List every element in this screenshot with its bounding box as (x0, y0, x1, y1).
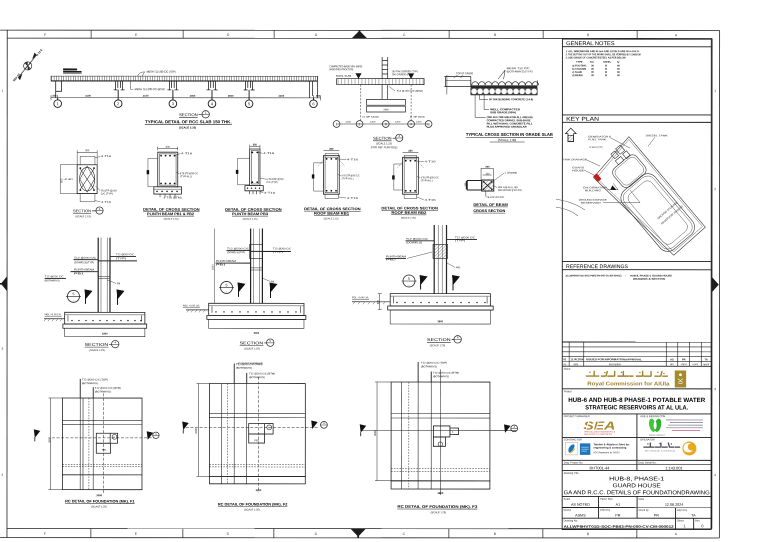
right edge row labels (714, 89, 716, 477)
svg-text:engineering & contracting: engineering & contracting (593, 447, 626, 450)
svg-text:(TYP-ALL): (TYP-ALL) (180, 175, 192, 178)
svg-text:RESERVOIR: RESERVOIR (581, 202, 601, 205)
svg-text:(SCALE 1:25): (SCALE 1:25) (376, 141, 392, 145)
S5 ground line left (186, 309, 209, 311)
svg-text:no.: no. (563, 363, 567, 366)
svg-text:ROOF BEAM RB1: ROOF BEAM RB1 (314, 212, 349, 216)
RCU arabic wordmark (squiggle approximation) (586, 371, 667, 376)
key plan site boundary (594, 137, 706, 256)
RCU gold emblem (675, 370, 686, 387)
RB2 rebar dots (405, 160, 416, 192)
svg-text:PB2: PB2 (386, 258, 397, 261)
contractor row bottom (562, 459, 711, 461)
svg-text:C/C (TYP): C/C (TYP) (101, 192, 113, 195)
svg-text:(MODIFIED PROCTOR): (MODIFIED PROCTOR) (329, 68, 353, 71)
drawn row (675, 508, 677, 530)
svg-text:T12 @200 C/C (BTM): T12 @200 C/C (BTM) (249, 373, 275, 376)
svg-text:SECTION: SECTION (73, 209, 91, 213)
svg-text:4-T16: 4-T16 (263, 152, 275, 155)
slab band bottom thick edge (51, 80, 317, 82)
svg-text:4-T16: 4-T16 (347, 197, 359, 200)
right centering mark triangle (712, 277, 719, 292)
svg-text:3: 3 (172, 101, 175, 106)
svg-text:SAUDI CONSULT: SAUDI CONSULT (649, 434, 666, 437)
svg-text:T8-STP 200 C/C: T8-STP 200 C/C (486, 196, 504, 199)
PB3 base strip (245, 186, 263, 191)
SC green logo (648, 418, 663, 432)
svg-text:(SCALE 1:25): (SCALE 1:25) (244, 509, 260, 512)
grade slab mesh dark strip (471, 86, 538, 88)
RB2 top dim (403, 151, 419, 153)
svg-text:TYPICAL DETAIL OF RCC SLAB 150: TYPICAL DETAIL OF RCC SLAB 150 THK. (145, 119, 232, 124)
svg-text:SUB GRADE (95%): SUB GRADE (95%) (490, 110, 516, 114)
RB1 top bracket (325, 153, 339, 157)
svg-text:150: 150 (485, 172, 490, 175)
svg-text:250: 250 (253, 144, 258, 147)
svg-text:4-T16: 4-T16 (347, 158, 359, 161)
svg-text:d) BEAM: d) BEAM (572, 74, 582, 77)
svg-text:1t. OF 16mm: 1t. OF 16mm (410, 116, 425, 119)
svg-text:PR: PR (682, 357, 686, 361)
svg-text:(SCALE 1:15): (SCALE 1:15) (324, 217, 339, 220)
left edge dim ticks (446, 75, 448, 95)
svg-text:2600: 2600 (383, 109, 389, 111)
S6 plinth beam block on column (433, 244, 448, 258)
svg-text:B: B (494, 33, 497, 37)
svg-text:3: 3 (1, 347, 3, 351)
svg-text:5: 5 (408, 277, 410, 281)
frame left border (6, 30, 8, 537)
key plan leader lines (584, 137, 655, 203)
svg-text:D: D (227, 532, 230, 536)
svg-text:1: 1 (57, 101, 60, 106)
reference drawings bar (562, 260, 711, 262)
svg-text:1800: 1800 (102, 332, 108, 335)
svg-text:(SCALE 1:15): (SCALE 1:15) (243, 218, 258, 221)
svg-text:R62: R62 (456, 266, 461, 269)
S4 blinding layer (63, 324, 147, 328)
svg-text:250: 250 (329, 148, 334, 151)
grade slab aggregate row (471, 88, 538, 95)
F1 centerlines (102, 393, 104, 493)
svg-text:200: 200 (485, 166, 490, 169)
svg-text:(BOTHWAYS): (BOTHWAYS) (236, 367, 252, 370)
S4 footing (65, 312, 145, 324)
grade slab scallop row (471, 80, 538, 85)
SC text lines (666, 420, 703, 428)
svg-text:ALLWP8HVT01D-SOC-PB03-PN-000-C: ALLWP8HVT01D-SOC-PB03-PN-000-CV-CM-00001… (564, 525, 674, 529)
S6 column shaft (434, 225, 446, 294)
svg-text:(TYP): (TYP) (455, 239, 465, 242)
slab band with hatch (51, 76, 317, 81)
bottom ruler letters (44, 532, 678, 536)
svg-text:Date: Date (639, 497, 645, 501)
cut arrows on beam (355, 73, 361, 79)
north arrow head NE (33, 53, 36, 58)
contractor logo B (blue square) (580, 443, 590, 455)
revision table (562, 342, 711, 366)
svg-text:AS NOTED: AS NOTED (571, 503, 590, 507)
S6 excavation outline (390, 310, 490, 324)
lintel left end tick (465, 181, 467, 189)
svg-text:TOP OF GRADE: TOP OF GRADE (456, 72, 473, 75)
red guard house marker (593, 173, 601, 182)
svg-text:SECTION: SECTION (427, 337, 451, 342)
svg-text:DETAIL OF CROSS SECTION: DETAIL OF CROSS SECTION (381, 206, 438, 210)
svg-text:5: 5 (226, 283, 228, 287)
PB1 left dim box (148, 158, 158, 186)
svg-text:A1: A1 (616, 503, 621, 507)
svg-text:4-T16: 4-T16 (425, 199, 437, 202)
general notes bottom (562, 114, 711, 116)
svg-text:3200: 3200 (256, 488, 262, 492)
S5 cut flag right (269, 282, 277, 292)
footing lower pad rect (367, 106, 406, 112)
F3 vertical bar lines (400, 382, 402, 489)
svg-text:(SCALE 1:25): (SCALE 1:25) (430, 344, 446, 347)
lintel top bracket (481, 168, 493, 180)
S6 footing (390, 294, 490, 306)
svg-text:B. WALL (TYP): B. WALL (TYP) (589, 146, 602, 149)
section 2 dim line with bubbles (337, 123, 428, 125)
frame right inner border (711, 38, 713, 528)
svg-text:PLUS APPROVED GRANULAR: PLUS APPROVED GRANULAR (487, 125, 527, 129)
svg-text:DETAIL OF BEAM: DETAIL OF BEAM (473, 203, 508, 207)
top ruler division ticks (91, 30, 637, 38)
svg-text:Dwg. Serial No.: Dwg. Serial No. (638, 461, 656, 465)
svg-text:(SCALE 1:25): (SCALE 1:25) (89, 349, 105, 352)
svg-text:12.08.2024: 12.08.2024 (665, 503, 683, 507)
F1 left dim (49, 398, 51, 490)
label BLDG FFL blob top-left (63, 68, 82, 72)
svg-text:1500: 1500 (212, 264, 215, 270)
svg-text:PR: PR (654, 514, 659, 518)
dwg numbers row (636, 460, 638, 470)
svg-text:4-T16: 4-T16 (101, 155, 112, 158)
svg-text:3. USE GRADE OF CONCRETE/STEEL: 3. USE GRADE OF CONCRETE/STEEL AS PER BE… (566, 55, 627, 59)
dwg numbers row bottom (562, 469, 711, 471)
scale row bottom (562, 506, 711, 508)
svg-text:GENERAL NOTES: GENERAL NOTES (566, 41, 615, 47)
svg-text:4: 4 (268, 427, 270, 430)
F1 leader drop lines (79, 379, 81, 398)
F3 dashed bottom bars (391, 467, 490, 469)
S5 footing (209, 303, 304, 315)
svg-text:Drawing Title: Drawing Title (564, 471, 580, 475)
svg-text:TANK DRAINAGE: TANK DRAINAGE (563, 158, 587, 161)
small reservoir cell (610, 152, 648, 190)
svg-text:3600: 3600 (437, 491, 443, 495)
svg-text:Royal Commission for AlUla: Royal Commission for AlUla (587, 381, 670, 387)
key plan site structures (rotated) (589, 141, 699, 258)
PB3 dowels below base (250, 191, 261, 194)
svg-text:Drawing No.: Drawing No. (564, 518, 579, 522)
svg-text:4-T16 (BTM): 4-T16 (BTM) (164, 196, 182, 199)
RB1 rect (323, 155, 339, 194)
svg-text:3000: 3000 (47, 436, 51, 442)
svg-text:MESH T12-200 C/C (BTM): MESH T12-200 C/C (BTM) (135, 87, 165, 91)
svg-text:(SCALE 1:25): (SCALE 1:25) (179, 125, 196, 129)
drawing title bottom (562, 495, 711, 497)
svg-text:3000: 3000 (190, 94, 196, 98)
svg-text:TYPICAL CROSS SECTION IN GRADE: TYPICAL CROSS SECTION IN GRADE SLAB (466, 132, 553, 137)
svg-text:T12 @200 C/C (BTM): T12 @200 C/C (BTM) (95, 387, 121, 390)
project row bottom (562, 413, 711, 415)
general notes table (572, 61, 620, 77)
svg-text:F: F (44, 532, 46, 536)
svg-text:description: description (609, 363, 622, 366)
svg-text:250: 250 (408, 150, 413, 153)
svg-text:-0.30: -0.30 (64, 178, 74, 181)
S5 left dim (213, 229, 215, 304)
F3 left cut flag (360, 424, 367, 433)
revision header row (563, 363, 709, 366)
svg-text:(BOTHWAYS): (BOTHWAYS) (249, 376, 265, 379)
key plan bar bottom (562, 121, 711, 123)
svg-text:fcu: fcu (590, 61, 594, 64)
F2 column outline (249, 424, 273, 444)
svg-text:12.08.2024: 12.08.2024 (570, 357, 584, 361)
svg-text:AS: AS (670, 357, 674, 361)
svg-text:Paper Size: Paper Size (600, 497, 613, 501)
RB2 rect (403, 157, 419, 194)
revision data row (563, 357, 708, 361)
grid bubbles (54, 90, 317, 108)
svg-text:F: F (44, 33, 46, 37)
svg-text:B: B (587, 532, 590, 536)
svg-text:HSE & DESIGN CON.: HSE & DESIGN CON. (640, 414, 666, 418)
F2 outer square (209, 384, 305, 477)
svg-text:3: 3 (99, 207, 101, 211)
svg-text:MESH T12-200 C/C (TOP): MESH T12-200 C/C (TOP) (147, 70, 176, 74)
svg-text:4: 4 (1, 473, 3, 477)
svg-text:CROSS SECTION: CROSS SECTION (473, 209, 505, 213)
general notes text lines (566, 49, 641, 59)
svg-text:HUB-8, PHASE-1: HUB-8, PHASE-1 (609, 477, 664, 483)
svg-text:app'd: app'd (703, 363, 710, 366)
svg-text:(SCALE 1:25): (SCALE 1:25) (431, 511, 447, 514)
svg-text:4-T16: 4-T16 (264, 192, 276, 195)
svg-text:rev'd: rev'd (693, 363, 699, 366)
svg-text:1: 1 (714, 89, 716, 93)
svg-text:(TYP-ALL): (TYP-ALL) (342, 177, 354, 180)
F3 centerlines (439, 369, 441, 495)
svg-text:(TYP): (TYP) (116, 257, 126, 260)
svg-text:T12 @200 C/C (BTM): T12 @200 C/C (BTM) (433, 372, 459, 375)
bottom ruler division ticks (91, 528, 637, 537)
svg-text:Rev.: Rev. (695, 519, 700, 523)
right end downstand (310, 76, 318, 98)
F2 right cut flag and bubble (311, 420, 318, 429)
svg-text:(BOTHWAYS) (TYP): (BOTHWAYS) (TYP) (507, 69, 533, 73)
PB1 top dim (158, 147, 178, 149)
svg-text:PB1: PB1 (102, 449, 107, 452)
svg-text:DIESEL TANK: DIESEL TANK (646, 134, 669, 137)
svg-text:4100: 4100 (85, 94, 91, 98)
RB2 dashed hooks (397, 162, 424, 168)
north arrow head SW (18, 75, 21, 80)
svg-text:PR: PR (615, 514, 620, 518)
svg-text:chk'd: chk'd (681, 363, 687, 366)
svg-text:PLINTH BEAM PB1 & PB2: PLINTH BEAM PB1 & PB2 (147, 212, 194, 216)
svg-text:(SCALE 1:15): (SCALE 1:15) (164, 218, 179, 221)
svg-text:0: 0 (701, 523, 704, 528)
svg-text:4: 4 (452, 431, 454, 434)
title block outer box (562, 39, 711, 529)
operator arabic wordmark (644, 443, 680, 447)
svg-text:(DOWELS)(TYP): (DOWELS)(TYP) (74, 261, 94, 264)
svg-text:Rev'd by: Rev'd by (639, 508, 650, 512)
operator swirl logo (682, 441, 696, 455)
svg-text:Project: Project (564, 389, 572, 393)
svg-text:2: 2 (714, 187, 716, 191)
S4 footing rebar dots row (71, 320, 141, 321)
svg-text:Scale: Scale (564, 497, 571, 501)
svg-text:PLINTH BEAM: PLINTH BEAM (74, 268, 94, 271)
svg-text:T12 @200 C/C (TOP): T12 @200 C/C (TOP) (82, 378, 108, 381)
svg-text:(BOTHWAYS): (BOTHWAYS) (421, 365, 437, 368)
svg-text:3000: 3000 (254, 332, 260, 335)
PB3 beam rect (250, 149, 260, 186)
frame right outer border (718, 30, 720, 537)
svg-text:N 31 E: N 31 E (35, 48, 43, 57)
svg-text:3200: 3200 (194, 428, 198, 434)
S6 footing rebar dots row (396, 302, 485, 303)
svg-text:ALLWP8HVT01D-SOC-PB03-PN-000-C: ALLWP8HVT01D-SOC-PB03-PN-000-CV-AR-00001… (565, 274, 622, 277)
top ruler letters (44, 33, 678, 37)
svg-text:1200: 1200 (345, 121, 351, 124)
svg-text:(BOTHWAYS): (BOTHWAYS) (95, 390, 111, 393)
svg-text:RC DETAIL OF FOUNDATION (MK).: RC DETAIL OF FOUNDATION (MK). F1 (65, 499, 135, 503)
guard house structures (616, 145, 625, 154)
svg-text:-: - (226, 290, 227, 294)
PB1 base strip (154, 187, 182, 194)
S5 blinding layer (207, 315, 306, 319)
svg-text:C: C (403, 532, 406, 536)
svg-text:FUEL TANK: FUEL TANK (588, 138, 607, 141)
svg-text:B: B (605, 74, 607, 77)
PB1 rebar dots (156, 155, 178, 192)
RB1 left dim box (314, 163, 324, 191)
svg-text:2: 2 (359, 122, 361, 126)
left edge horizontal tick (0, 283, 7, 285)
svg-text:Chk'd by: Chk'd by (600, 508, 611, 512)
svg-text:(BOTHWAYS): (BOTHWAYS) (433, 375, 449, 378)
svg-text:4-T16: 4-T16 (425, 160, 437, 163)
svg-text:B: B (494, 532, 497, 536)
RB2 top bracket (404, 155, 417, 159)
S5 footing rebar dots row (215, 311, 296, 312)
left slab edge extension (446, 77, 471, 87)
top dim (77, 151, 97, 153)
PB3 top dim (250, 145, 260, 147)
consultants row divider (636, 414, 638, 460)
svg-text:1200: 1200 (395, 121, 401, 124)
svg-text:(DOWELS)(TYP): (DOWELS)(TYP) (227, 251, 245, 254)
access road curves (556, 199, 585, 216)
svg-text:C: C (403, 33, 406, 37)
svg-text:30: 30 (591, 74, 594, 77)
svg-text:A: A (675, 33, 678, 37)
left centering mark triangle (1, 276, 7, 291)
F3 right cut flag and bubble (504, 424, 511, 433)
svg-text:STEEL: STEEL (603, 61, 612, 64)
dimension extension ticks (51, 95, 321, 100)
svg-text:-: - (73, 298, 74, 302)
svg-text:6: 6 (457, 336, 459, 340)
svg-text:TYPE: TYPE (576, 61, 583, 64)
S5 column shaft (251, 229, 263, 304)
PB3 rebar dots (247, 152, 260, 189)
svg-text:50 THK BLINDING CONCRETE (1:4:: 50 THK BLINDING CONCRETE (1:4:8) (489, 97, 533, 101)
F3 leader drop lines (417, 362, 419, 382)
S6 cut flag right (452, 275, 460, 285)
svg-text:SECTION: SECTION (85, 342, 109, 347)
svg-text:DRAWING & SECTION: DRAWING & SECTION (633, 278, 665, 281)
S5 column joint ticks (251, 250, 290, 252)
frame top outer line (0, 29, 719, 31)
RB1 dashed hooks (318, 160, 345, 166)
svg-text:(SCALE 1:15): (SCALE 1:15) (75, 215, 91, 218)
S5 plinth beam block on column (250, 244, 263, 258)
svg-text:PLINTH BEAM PB3: PLINTH BEAM PB3 (232, 212, 268, 216)
svg-text:TA: TA (705, 357, 708, 361)
svg-text:-: - (408, 283, 409, 287)
svg-text:AGC Represents for SAUDI: AGC Represents for SAUDI (593, 451, 619, 454)
svg-text:150 GRADE (FF): 150 GRADE (FF) (392, 73, 412, 76)
S6 blinding layer (388, 306, 494, 310)
S4 ground line left (44, 318, 65, 320)
svg-text:60: 60 (617, 74, 620, 77)
svg-text:GUARD HOUSE: GUARD HOUSE (613, 483, 661, 489)
PB3 left dim box (238, 158, 250, 185)
bottom centering mark triangle (351, 529, 366, 537)
S4 column shaft (98, 238, 110, 313)
svg-text:3600: 3600 (373, 430, 377, 436)
svg-text:1: 1 (205, 111, 207, 115)
column section inner oval (80, 167, 95, 191)
svg-text:300: 300 (85, 149, 90, 152)
svg-text:fy: fy (617, 61, 620, 64)
svg-text:BUILDING: BUILDING (585, 189, 601, 192)
svg-text:T12 @200 C/C (TOP): T12 @200 C/C (TOP) (236, 363, 262, 366)
svg-text:1200: 1200 (370, 121, 376, 124)
contractor logo A (emblem) (565, 442, 578, 455)
reference drawings entry (565, 274, 672, 280)
RB2 bottom bracket (404, 194, 417, 198)
svg-text:1200: 1200 (416, 121, 422, 124)
S6 cut circle symbol (403, 275, 415, 287)
column section outer rect (77, 165, 97, 194)
client row bottom (562, 388, 711, 390)
svg-text:REFERENCE DRAWINGS: REFERENCE DRAWINGS (566, 264, 629, 270)
svg-text:1: 1 (683, 523, 686, 528)
svg-text:1: 1 (336, 122, 338, 126)
top bracket and bar label (80, 156, 95, 164)
north arrow circle (24, 62, 32, 70)
F2 left dim (197, 384, 199, 477)
svg-text:(BOTHWAYS): (BOTHWAYS) (82, 382, 98, 385)
svg-text:date: date (573, 363, 578, 366)
svg-text:(TYP-ALL): (TYP-ALL) (421, 179, 433, 182)
svg-text:300: 300 (316, 94, 321, 98)
svg-text:BHT001-44: BHT001-44 (590, 465, 611, 470)
dimension values (52, 94, 321, 98)
drawing number row (693, 518, 695, 529)
svg-text:RC DETAIL OF FOUNDATION (MK).: RC DETAIL OF FOUNDATION (MK). F2 (218, 503, 288, 507)
F1 outer square (62, 398, 142, 490)
svg-text:PB1: PB1 (254, 439, 259, 442)
